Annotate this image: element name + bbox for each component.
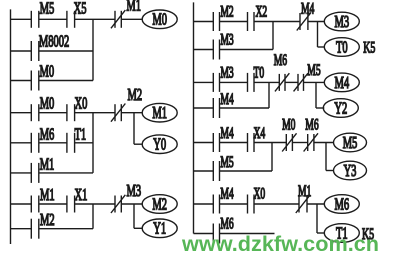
label M1: [298, 183, 311, 200]
NC contact M6 rung5: [275, 73, 289, 91]
svg-text:M6: M6: [40, 125, 55, 144]
contact M1 rung3: [31, 196, 39, 213]
wire: [194, 142, 214, 144]
label M6: [220, 215, 234, 232]
label M3: [220, 31, 233, 48]
label X1: [75, 186, 88, 205]
svg-text:M4: M4: [301, 0, 315, 17]
label M4: [301, 0, 315, 17]
label M4: [220, 185, 234, 202]
svg-text:www.dzkfw.com.cn: www.dzkfw.com.cn: [181, 233, 379, 255]
wire: [220, 233, 275, 235]
label M5: [220, 154, 233, 171]
label M0: [40, 94, 55, 113]
svg-text:M6: M6: [334, 195, 349, 214]
label M1: [40, 155, 55, 174]
label M4: [220, 91, 234, 108]
wire: [75, 18, 115, 20]
wire: [39, 228, 93, 230]
svg-text:X2: X2: [256, 3, 268, 20]
svg-text:M6: M6: [305, 116, 319, 133]
label M0: [282, 116, 295, 133]
wire: [194, 21, 214, 23]
svg-text:X1: X1: [75, 186, 88, 205]
NC contact M6 rung6: [304, 133, 318, 151]
label M6: [40, 125, 55, 144]
right power rail: [193, 2, 195, 233]
wire: [75, 112, 115, 114]
wire: [308, 21, 324, 23]
svg-text:M0: M0: [40, 62, 55, 81]
NC contact M5 rung5: [294, 73, 308, 91]
coil M6: [324, 195, 359, 215]
svg-text:M6: M6: [274, 52, 288, 69]
label T0: [254, 64, 265, 81]
wire: [220, 142, 248, 144]
label X5: [74, 0, 87, 18]
svg-text:M3: M3: [220, 64, 233, 81]
label M1: [40, 186, 55, 205]
wire: [307, 203, 324, 205]
wire: [11, 228, 32, 230]
svg-text:M3: M3: [334, 12, 349, 31]
svg-text:M6: M6: [220, 215, 234, 232]
svg-text:Y3: Y3: [344, 161, 357, 180]
coil Y0: [142, 135, 177, 155]
wire: [220, 81, 248, 83]
contact M6 branch rung7: [213, 224, 219, 244]
label M3: [127, 182, 142, 201]
wire: [11, 112, 32, 114]
svg-text:M3: M3: [127, 182, 142, 201]
svg-text:M4: M4: [220, 125, 234, 142]
coil T1: [324, 224, 359, 244]
wire: [326, 170, 334, 172]
NC contact M0 rung6: [282, 133, 296, 151]
wire: [220, 203, 248, 205]
wire: [39, 112, 67, 114]
wire: [304, 81, 325, 83]
svg-text:M1: M1: [40, 155, 55, 174]
wire: [134, 143, 142, 145]
contact M8002 branch: [31, 41, 39, 61]
NC contact M1 rung1: [111, 10, 125, 28]
wire: [39, 172, 93, 174]
label X0: [254, 185, 266, 202]
wire: [121, 203, 142, 205]
wire: [39, 142, 67, 144]
coil Y3: [334, 161, 367, 181]
contact M3 rung5: [213, 73, 219, 92]
wire: [39, 50, 93, 52]
svg-text:M1: M1: [152, 104, 167, 123]
wire: [292, 142, 307, 144]
wire: [39, 80, 93, 82]
wire: [75, 142, 93, 144]
svg-text:M5: M5: [307, 62, 320, 79]
contact M2 branch rung3: [31, 219, 39, 239]
wire: [318, 46, 325, 48]
wire: [254, 81, 279, 83]
svg-text:X4: X4: [254, 125, 266, 142]
contact X1 rung3: [67, 196, 75, 213]
label M2: [40, 211, 55, 230]
svg-text:Y0: Y0: [153, 135, 166, 154]
svg-text:M5: M5: [220, 154, 233, 171]
junction vertical rung5: [268, 82, 270, 108]
NC contact M3 rung3: [111, 195, 125, 213]
wire: [11, 50, 32, 52]
wire: [39, 18, 67, 20]
svg-text:M0: M0: [40, 94, 55, 113]
junction vertical rung1: [92, 19, 94, 80]
label X0: [75, 94, 88, 113]
contact X0 rung7: [248, 195, 255, 214]
junction vertical rung3: [92, 204, 94, 229]
junction vertical rung6: [271, 143, 273, 172]
wire: [194, 107, 214, 109]
coil M1: [142, 103, 177, 123]
label M0: [40, 62, 55, 81]
wire: [254, 21, 300, 23]
contact M3 branch rung4: [213, 40, 219, 60]
svg-text:M2: M2: [152, 195, 167, 214]
label K5 timer T1: [362, 225, 374, 243]
wire: [11, 80, 32, 82]
svg-text:Y2: Y2: [334, 99, 347, 118]
wire: [220, 107, 270, 109]
coil M0: [142, 10, 177, 30]
wire: [220, 49, 274, 51]
svg-text:M4: M4: [220, 185, 234, 202]
wire: [121, 112, 142, 114]
contact M0 rung2: [31, 104, 39, 121]
svg-text:M2: M2: [40, 211, 55, 230]
wire: [254, 142, 286, 144]
label M6: [274, 52, 288, 69]
contact M4 rung7: [213, 195, 219, 214]
svg-text:M0: M0: [282, 116, 295, 133]
coil Y1: [142, 219, 177, 239]
NC contact M2 rung2: [111, 104, 125, 122]
wire: [254, 203, 299, 205]
contact T0 rung5: [248, 73, 255, 92]
contact M5 branch rung6: [213, 161, 219, 181]
svg-text:M1: M1: [126, 0, 141, 15]
left power rail: [10, 9, 12, 244]
label T1: [75, 125, 87, 144]
wire: [11, 142, 32, 144]
contact X4 rung6: [248, 133, 255, 152]
label X4: [254, 125, 266, 142]
coil branch vertical rung2: [133, 113, 135, 145]
wire: [220, 21, 248, 23]
wire: [220, 170, 273, 172]
contact M2 rung4: [213, 12, 219, 31]
svg-text:M1: M1: [40, 186, 55, 205]
wire: [317, 232, 324, 234]
coil Y2: [323, 99, 358, 119]
svg-text:M4: M4: [220, 91, 234, 108]
svg-text:M5: M5: [343, 133, 358, 152]
coil M4: [324, 73, 359, 93]
NC contact M4 rung4: [297, 12, 311, 30]
coil branch vertical rung6: [325, 143, 327, 171]
svg-text:M2: M2: [220, 3, 233, 20]
svg-text:M5: M5: [40, 0, 55, 18]
label M5: [40, 0, 55, 18]
svg-text:X0: X0: [254, 185, 266, 202]
label X2: [256, 3, 268, 20]
wire: [39, 203, 67, 205]
wire: [194, 203, 214, 205]
coil branch vertical rung5: [315, 82, 317, 108]
svg-text:T1: T1: [75, 125, 87, 144]
svg-text:Y1: Y1: [153, 219, 166, 238]
svg-text:M3: M3: [220, 31, 233, 48]
label M2: [128, 85, 143, 104]
svg-text:X5: X5: [74, 0, 87, 18]
label M5: [307, 62, 320, 79]
svg-text:X0: X0: [75, 94, 88, 113]
contact M6 branch rung2: [31, 133, 39, 153]
coil branch vertical rung4: [317, 22, 319, 48]
svg-text:M8002: M8002: [39, 32, 69, 51]
label M3: [220, 64, 233, 81]
wire: [11, 18, 32, 20]
wire: [11, 172, 32, 174]
watermark www.dzkfw.com.cn: [181, 233, 379, 255]
coil T0: [324, 38, 359, 58]
wire: [316, 107, 324, 109]
contact X5 rung1: [67, 11, 75, 28]
label M4: [220, 125, 234, 142]
svg-text:T0: T0: [254, 64, 265, 81]
NC contact M1 rung7: [296, 195, 310, 213]
coil M3: [324, 12, 359, 32]
wire: [194, 170, 214, 172]
junction vertical rung4: [272, 22, 274, 50]
svg-text:M2: M2: [128, 85, 143, 104]
wire: [134, 227, 142, 229]
contact X0 rung2: [67, 104, 75, 121]
svg-text:K5: K5: [363, 38, 375, 56]
wire: [121, 18, 142, 20]
contact M1 branch rung2: [31, 163, 39, 183]
wire: [194, 49, 214, 51]
wire: [194, 81, 214, 83]
wire: [75, 203, 115, 205]
coil M5: [334, 133, 367, 153]
svg-text:M0: M0: [152, 10, 167, 29]
label M2: [220, 3, 233, 20]
label M6: [305, 116, 319, 133]
wire: [285, 81, 298, 83]
contact M5 rung1: [31, 11, 39, 28]
coil branch vertical rung7: [316, 204, 318, 233]
coil branch vertical rung3: [133, 204, 135, 228]
wire: [314, 142, 334, 144]
contact M4 rung6: [213, 133, 219, 152]
contact X2 rung4: [248, 12, 255, 31]
wire: [11, 203, 32, 205]
svg-text:M1: M1: [298, 183, 311, 200]
svg-text:T0: T0: [336, 38, 348, 57]
label M1: [126, 0, 141, 15]
contact M0 branch rung1: [31, 71, 39, 91]
contact M4 branch rung5: [213, 98, 219, 118]
wire: [194, 233, 214, 235]
label K5 timer T0: [363, 38, 375, 56]
contact T1 branch rung2: [67, 133, 75, 153]
svg-text:M4: M4: [334, 73, 349, 92]
junction vertical rung2: [92, 113, 94, 173]
coil M2: [142, 195, 177, 215]
label M8002: [39, 32, 69, 51]
